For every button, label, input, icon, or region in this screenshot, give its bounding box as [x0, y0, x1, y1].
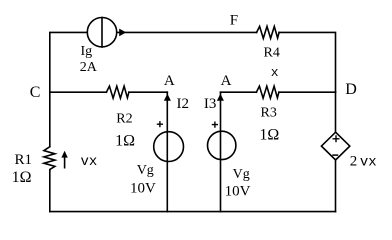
svg-text:R3: R3	[261, 105, 277, 120]
svg-text:1Ω: 1Ω	[115, 133, 135, 150]
current source U Ig (circle with vertical bar)	[87, 18, 116, 47]
svg-text:A: A	[164, 73, 175, 89]
dependent source E1 diamond 2vx	[321, 132, 349, 160]
arrow vx (points up beside R1)	[61, 151, 67, 158]
wire left: C down to R1	[49, 92, 51, 147]
minus sign inside diamond	[332, 154, 338, 156]
plus sign of Vg left	[157, 121, 163, 127]
wire right-lower: dependent source to bottom-right corner	[335, 160, 337, 212]
svg-text:1Ω: 1Ω	[12, 169, 32, 186]
wire branch I3: node A down through Vg right to bottom	[220, 92, 222, 211]
svg-text:10V: 10V	[130, 181, 156, 197]
svg-text:10V: 10V	[225, 184, 251, 200]
resistor R2 zigzag	[106, 86, 128, 98]
svg-text:2: 2	[350, 153, 358, 169]
svg-text:1Ω: 1Ω	[259, 127, 279, 144]
svg-text:R4: R4	[264, 45, 280, 60]
wire top-middle: current source to R4	[118, 31, 257, 33]
wire mid-right: node A (I3) to R3	[221, 91, 257, 93]
svg-text:Vg: Vg	[137, 163, 154, 178]
voltage source Vg right (circle)	[208, 131, 236, 159]
svg-text:D: D	[345, 81, 357, 98]
wire mid-left: C row from left wire to R2	[50, 91, 107, 93]
wire mid-left2: R2 to node A	[129, 91, 167, 93]
arrow of current source Ig (points right)	[119, 29, 126, 37]
svg-text:F: F	[230, 13, 238, 29]
plus sign inside diamond	[333, 135, 340, 142]
resistor R3 zigzag	[256, 86, 279, 98]
arrow I3 (points up at node A)	[217, 94, 224, 101]
svg-text:x: x	[271, 65, 279, 80]
wire right-upper: D to dependent source	[335, 92, 337, 132]
wire bottom	[50, 211, 336, 213]
svg-text:Ig: Ig	[81, 44, 93, 59]
voltage source Vg left (circle)	[154, 132, 184, 162]
wire top-right: R4 to top-right corner down to D	[279, 32, 335, 92]
wire left-lower: R1 to bottom-left corner	[49, 171, 51, 212]
wire branch I2: node A down through Vg left to bottom	[166, 92, 168, 211]
resistor R1 zigzag vertical	[44, 147, 55, 171]
svg-text:C: C	[30, 84, 41, 101]
wire mid-right2: R3 to node D	[279, 91, 336, 93]
svg-text:Vg: Vg	[233, 167, 250, 182]
svg-text:R2: R2	[116, 111, 132, 126]
resistor R4 zigzag	[257, 26, 280, 38]
svg-text:vx: vx	[81, 154, 98, 170]
svg-text:vx: vx	[360, 154, 377, 170]
svg-text:2A: 2A	[80, 60, 98, 75]
arrow I2 (points up at node A)	[164, 94, 171, 101]
wire top-left: top-left corner to current source	[50, 32, 87, 92]
arrow vx shaft	[64, 157, 66, 169]
svg-text:A: A	[221, 73, 232, 89]
plus sign of Vg right	[212, 122, 218, 128]
svg-text:I2: I2	[177, 96, 190, 112]
svg-text:R1: R1	[15, 152, 33, 168]
svg-text:I3: I3	[204, 96, 217, 112]
